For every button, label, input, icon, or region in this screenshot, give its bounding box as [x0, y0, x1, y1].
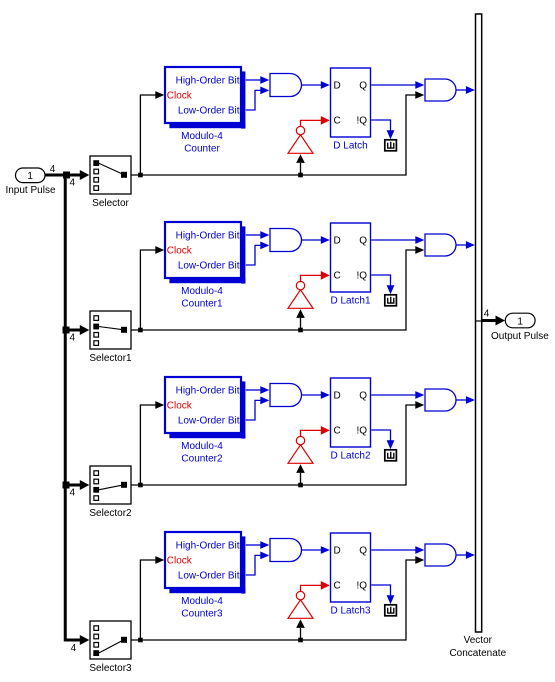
AND gate (output): [425, 389, 456, 411]
svg-text:High-Order Bit: High-Order Bit: [176, 541, 240, 552]
AND gate (counter bits): [270, 539, 302, 562]
svg-text:Counter3: Counter3: [181, 608, 223, 619]
label Modulo-4 Counter2: [181, 441, 223, 465]
subsystem Modulo-4 Counter3: [165, 532, 245, 594]
svg-text:4: 4: [484, 308, 490, 319]
svg-text:D Latch3: D Latch3: [330, 605, 370, 616]
selector Selector1: [90, 311, 131, 349]
svg-text:Q: Q: [359, 235, 367, 246]
signal width label 4 (row3): [70, 488, 76, 499]
svg-text:!Q: !Q: [356, 115, 367, 126]
svg-text:4: 4: [70, 178, 76, 189]
wire junction to NOT gate: [296, 619, 305, 642]
label D Latch2: [330, 450, 370, 461]
wire selector output to counter clock: [138, 246, 164, 332]
wire Low-Order Bit to AND: [246, 552, 269, 576]
label Output Pulse: [491, 331, 549, 342]
svg-text:D: D: [334, 80, 341, 91]
AND gate (counter bits): [270, 229, 302, 252]
label Selector: [92, 198, 129, 209]
svg-text:C: C: [334, 425, 341, 436]
D latch D Latch2: [331, 378, 371, 447]
D latch D Latch: [331, 68, 371, 137]
terminator block: [385, 450, 397, 461]
svg-text:D Latch2: D Latch2: [330, 450, 370, 461]
wire Q to AND2: [371, 546, 424, 554]
svg-text:C: C: [334, 115, 341, 126]
wire junction to NOT gate: [296, 309, 305, 332]
label Selector3: [89, 663, 132, 674]
svg-text:!Q: !Q: [356, 425, 367, 436]
label D Latch3: [330, 605, 370, 616]
wire Q to AND2: [371, 236, 424, 244]
svg-text:4: 4: [50, 164, 56, 175]
svg-text:Q: Q: [359, 80, 367, 91]
NOT gate (red): [288, 281, 313, 308]
svg-text:D: D: [334, 390, 341, 401]
Vector Concatenate block: [476, 14, 482, 632]
label Selector2: [89, 508, 132, 519]
terminator block: [385, 140, 397, 151]
signal width label 4 (row2): [70, 333, 76, 344]
wire !Q to terminator: [371, 585, 394, 604]
svg-text:D Latch1: D Latch1: [330, 295, 370, 306]
signal width label 4 (output): [484, 308, 490, 319]
svg-text:Low-Order Bit: Low-Order Bit: [178, 571, 240, 582]
svg-text:C: C: [334, 580, 341, 591]
wire selector output to AND2: [131, 556, 424, 640]
label Input Pulse: [5, 185, 55, 196]
wire Low-Order Bit to AND: [246, 87, 269, 111]
svg-text:High-Order Bit: High-Order Bit: [176, 76, 240, 87]
wire High-Order Bit to AND: [246, 541, 269, 549]
AND gate (output): [425, 79, 456, 101]
wire AND2 to Vector Concatenate: [456, 551, 475, 559]
wire selector output to counter clock: [138, 401, 164, 487]
wire Low-Order Bit to AND: [246, 397, 269, 421]
svg-text:Selector1: Selector1: [89, 353, 132, 364]
wire junction to NOT gate: [296, 464, 305, 487]
svg-text:Counter2: Counter2: [181, 453, 223, 464]
label D Latch1: [330, 295, 370, 306]
svg-text:Selector: Selector: [92, 198, 129, 209]
svg-text:Output Pulse: Output Pulse: [491, 331, 549, 342]
label Modulo-4 Counter1: [181, 286, 223, 310]
svg-text:Selector2: Selector2: [89, 508, 132, 519]
wire AND to D latch: [302, 546, 330, 554]
wire NOT gate to latch C input (red): [301, 426, 330, 437]
AND gate (counter bits): [270, 384, 302, 407]
svg-text:!Q: !Q: [356, 580, 367, 591]
wire selector output to AND2: [131, 401, 424, 485]
subsystem Modulo-4 Counter1: [165, 222, 245, 284]
svg-text:Low-Order Bit: Low-Order Bit: [178, 106, 240, 117]
wire !Q to terminator: [371, 430, 394, 449]
D latch D Latch1: [331, 223, 371, 292]
svg-text:Low-Order Bit: Low-Order Bit: [178, 261, 240, 272]
svg-text:4: 4: [70, 333, 76, 344]
svg-text:Counter: Counter: [184, 143, 220, 154]
svg-text:1: 1: [27, 171, 33, 182]
svg-text:Clock: Clock: [167, 556, 193, 567]
svg-text:High-Order Bit: High-Order Bit: [176, 386, 240, 397]
wire NOT gate to latch C input (red): [301, 581, 330, 592]
label Modulo-4 Counter: [181, 131, 223, 155]
wire High-Order Bit to AND: [246, 231, 269, 239]
wire AND to D latch: [302, 391, 330, 399]
svg-text:Q: Q: [359, 545, 367, 556]
svg-text:Vector: Vector: [464, 635, 493, 646]
label Selector1: [89, 353, 132, 364]
D latch D Latch3: [331, 533, 371, 602]
terminator block: [385, 605, 397, 616]
wire High-Order Bit to AND: [246, 76, 269, 84]
svg-text:Concatenate: Concatenate: [449, 648, 506, 659]
junction row2: [63, 325, 90, 335]
label Modulo-4 Counter3: [181, 596, 223, 620]
svg-text:Q: Q: [359, 390, 367, 401]
svg-text:High-Order Bit: High-Order Bit: [176, 231, 240, 242]
wire AND2 to Vector Concatenate: [456, 241, 475, 249]
NOT gate (red): [288, 436, 313, 463]
selector Selector: [90, 156, 131, 194]
svg-text:Modulo-4: Modulo-4: [181, 286, 223, 297]
wire NOT gate to latch C input (red): [301, 271, 330, 282]
svg-text:Modulo-4: Modulo-4: [181, 596, 223, 607]
svg-text:4: 4: [71, 643, 77, 654]
wire Q to AND2: [371, 81, 424, 89]
subsystem Modulo-4 Counter2: [165, 377, 245, 439]
wire !Q to terminator: [371, 120, 394, 139]
junction row1: [63, 170, 89, 180]
wire Vector Concatenate to Output Pulse (thick): [482, 316, 505, 326]
svg-text:Selector3: Selector3: [89, 663, 132, 674]
svg-text:1: 1: [517, 316, 523, 327]
wire selector output to counter clock: [138, 556, 164, 642]
svg-text:4: 4: [70, 488, 76, 499]
svg-text:Low-Order Bit: Low-Order Bit: [178, 416, 240, 427]
svg-text:!Q: !Q: [356, 270, 367, 281]
AND gate (output): [425, 234, 456, 256]
wire High-Order Bit to AND: [246, 386, 269, 394]
subsystem Modulo-4 Counter: [165, 67, 245, 129]
selector Selector3: [90, 621, 131, 659]
wire selector output to AND2: [131, 246, 424, 330]
wire Low-Order Bit to AND: [246, 242, 269, 266]
selector Selector2: [90, 466, 131, 504]
wire selector output to counter clock: [138, 91, 164, 177]
svg-text:C: C: [334, 270, 341, 281]
NOT gate (red): [288, 126, 313, 153]
NOT gate (red): [288, 591, 313, 618]
wire Q to AND2: [371, 391, 424, 399]
signal width label 4 (row4): [71, 643, 77, 654]
signal width label 4 (input): [50, 164, 56, 175]
wire input trunk (thick): [45, 175, 89, 645]
svg-text:D Latch: D Latch: [333, 140, 367, 151]
svg-text:D: D: [334, 545, 341, 556]
wire selector output to AND2: [131, 91, 424, 175]
svg-text:D: D: [334, 235, 341, 246]
svg-text:Counter1: Counter1: [181, 298, 223, 309]
input port Input Pulse: [16, 168, 46, 183]
wire AND to D latch: [302, 236, 330, 244]
svg-text:Input Pulse: Input Pulse: [5, 185, 55, 196]
wire NOT gate to latch C input (red): [301, 116, 330, 127]
AND gate (output): [425, 544, 456, 566]
junction row3: [63, 480, 90, 490]
wire AND2 to Vector Concatenate: [456, 86, 475, 94]
svg-text:Clock: Clock: [167, 246, 193, 257]
wire AND2 to Vector Concatenate: [456, 396, 475, 404]
svg-text:Clock: Clock: [167, 91, 193, 102]
terminator block: [385, 295, 397, 306]
signal width label 4 (row1): [70, 178, 76, 189]
svg-text:Clock: Clock: [167, 401, 193, 412]
label Vector Concatenate: [449, 635, 506, 659]
label D Latch: [333, 140, 367, 151]
svg-text:Modulo-4: Modulo-4: [181, 131, 223, 142]
output port Output Pulse: [505, 313, 535, 328]
wire junction to NOT gate: [296, 154, 305, 177]
svg-text:Modulo-4: Modulo-4: [181, 441, 223, 452]
wire !Q to terminator: [371, 275, 394, 294]
wire AND to D latch: [302, 81, 330, 89]
AND gate (counter bits): [270, 74, 302, 97]
